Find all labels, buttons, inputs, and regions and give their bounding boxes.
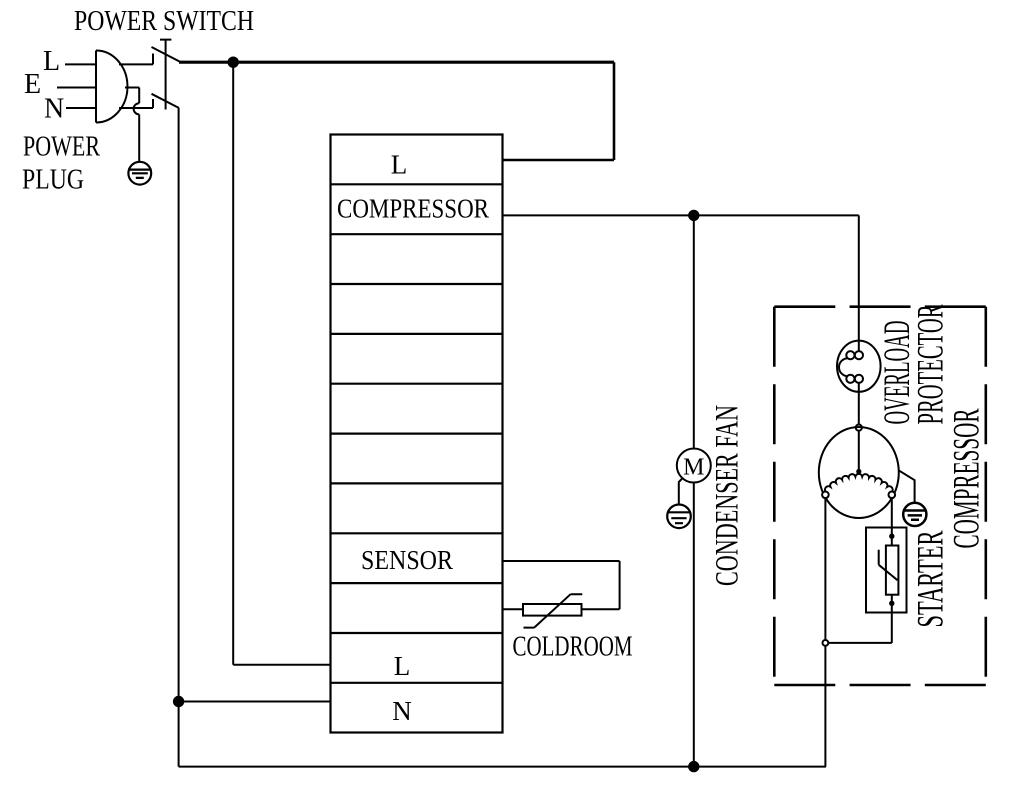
svg-text:PLUG: PLUG xyxy=(22,165,84,196)
svg-text:COMPRESSOR: COMPRESSOR xyxy=(947,408,988,548)
wire bottom bus xyxy=(179,766,826,768)
sensor coldroom thermistor body xyxy=(523,604,582,616)
svg-text:N: N xyxy=(44,94,64,125)
svg-text:PROTECTOR: PROTECTOR xyxy=(911,304,952,424)
svg-text:SENSOR: SENSOR xyxy=(361,545,453,575)
starter outer box xyxy=(866,528,907,613)
ground compressor xyxy=(903,503,926,526)
wire motor main lead xyxy=(824,498,826,640)
wire plug L to switch xyxy=(119,63,153,65)
node starter junction xyxy=(823,640,829,646)
power plug body xyxy=(96,51,128,123)
wire overload in xyxy=(858,341,860,351)
plug prong E xyxy=(57,87,96,89)
svg-text:COMPRESSOR: COMPRESSOR xyxy=(337,194,489,224)
wire E down to ground xyxy=(138,114,140,161)
compressor motor left terminal xyxy=(822,492,829,499)
wire fan ground link xyxy=(679,478,683,504)
terminal block outline xyxy=(331,135,503,733)
wire overload out xyxy=(858,383,860,425)
switch actuator bar xyxy=(160,40,171,110)
starter PTC body xyxy=(886,546,899,595)
svg-text:L: L xyxy=(391,150,408,180)
motor condenser fan M1 xyxy=(677,449,711,483)
switch pole2 stub xyxy=(152,99,154,108)
switch pole1 stub xyxy=(152,54,154,65)
svg-text:N: N xyxy=(392,696,412,726)
wire starter out xyxy=(891,595,893,643)
wire N row xyxy=(179,701,331,703)
node junction N-bottom xyxy=(173,696,184,707)
wire motor start lead xyxy=(891,498,893,545)
wire sensor row xyxy=(503,561,620,609)
wire fan to bottom bus xyxy=(693,483,695,767)
terminal block row lines xyxy=(331,184,503,683)
sensor thermistor diagonal xyxy=(524,594,583,627)
wire starter return xyxy=(828,642,892,644)
svg-text:COLDROOM: COLDROOM xyxy=(513,631,633,663)
wire plug E xyxy=(125,88,139,104)
wire main L (thick) xyxy=(179,61,614,64)
svg-text:L: L xyxy=(43,46,60,77)
ground fan xyxy=(667,505,691,529)
node winding center xyxy=(856,469,861,474)
wire motor case to ground xyxy=(899,470,915,502)
node junction bottom xyxy=(688,761,699,772)
svg-text:POWER: POWER xyxy=(23,132,100,163)
compressor motor right terminal xyxy=(889,492,896,499)
compressor unit dashed box xyxy=(774,307,986,685)
compressor motor top terminal xyxy=(856,425,862,431)
overload bimetal arc xyxy=(839,358,848,376)
node junction L-top xyxy=(228,57,239,68)
node starter out xyxy=(889,601,894,606)
switch pole2 blade xyxy=(152,94,180,108)
overload protector body xyxy=(837,341,881,392)
wire hop over N xyxy=(134,103,140,114)
wire compressor row xyxy=(503,214,859,216)
svg-text:CONDENSER FAN: CONDENSER FAN xyxy=(710,405,746,586)
plug prong N xyxy=(66,107,96,109)
wire N drop xyxy=(178,108,180,767)
wire L drop to block L row xyxy=(233,62,331,665)
svg-text:POWER SWITCH: POWER SWITCH xyxy=(74,6,254,37)
plug prong L xyxy=(65,63,96,65)
switch pole1 blade xyxy=(152,47,181,62)
compressor motor body xyxy=(819,427,899,518)
ground plug earth xyxy=(128,162,151,185)
wire fan drop xyxy=(693,215,695,448)
svg-text:STARTER: STARTER xyxy=(911,530,952,627)
overload contacts xyxy=(846,351,854,359)
wire junction to bottom bus xyxy=(824,646,826,767)
wire plug N to switch xyxy=(119,107,153,109)
wire sensor return xyxy=(503,608,523,610)
wire compressor drop xyxy=(858,215,860,340)
wire top right to L row xyxy=(503,62,614,160)
compressor motor winding xyxy=(825,474,893,492)
svg-text:L: L xyxy=(394,651,411,681)
compressor motor center lead xyxy=(858,431,860,471)
svg-text:E: E xyxy=(24,69,41,100)
node junction fan xyxy=(688,210,699,221)
svg-text:M: M xyxy=(683,455,704,481)
starter PTC diagonal xyxy=(879,550,898,580)
node starter in xyxy=(889,534,894,539)
